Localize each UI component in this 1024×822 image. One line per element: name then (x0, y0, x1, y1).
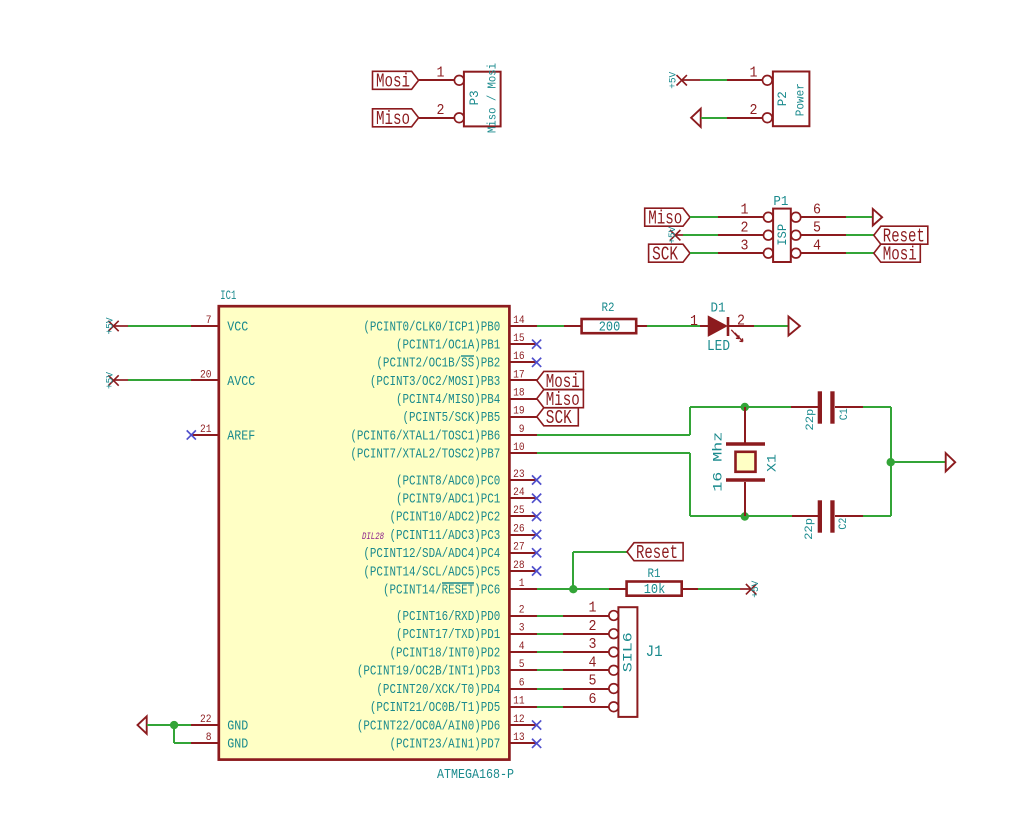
connector P2 pin 2 (763, 113, 773, 123)
svg-text:27: 27 (513, 542, 525, 554)
ground arrow (LED) (789, 317, 800, 336)
junction (569, 585, 577, 593)
IC pin 2 (PCINT16/RXD)PD0 (509, 615, 537, 617)
no-connect X (pin 16) (532, 358, 541, 367)
svg-text:(PCINT12/SDA/ADC4)PC4: (PCINT12/SDA/ADC4)PC4 (363, 546, 500, 562)
svg-text:ISP: ISP (776, 224, 790, 246)
no-connect X (AREF) (187, 430, 196, 439)
wire (700, 79, 727, 81)
power +5V (AVCC) (108, 375, 118, 385)
no-connect X (pin 12) (532, 720, 541, 729)
svg-text:6: 6 (519, 677, 525, 689)
connector P1 pin 2 (764, 230, 774, 240)
svg-text:10: 10 (513, 442, 525, 454)
svg-text:1: 1 (437, 64, 445, 81)
ground arrow (P2 pin 2) (691, 109, 701, 127)
svg-text:4: 4 (813, 237, 821, 254)
label Reset (P1 pin 5) (874, 226, 928, 244)
wire (537, 452, 690, 454)
no-connect X (pin 28) (532, 566, 541, 575)
IC pin 4 (PCINT18/INT0)PD2 (509, 651, 537, 653)
svg-text:IC1: IC1 (220, 288, 236, 303)
svg-text:+5V: +5V (751, 581, 762, 598)
IC pin 14 (PCINT0/CLK0/ICP1)PB0 (509, 325, 537, 327)
svg-text:Power: Power (793, 83, 807, 116)
wire (537, 434, 690, 436)
connector P1 pin 1 (764, 212, 774, 222)
wire (690, 216, 718, 218)
svg-text:P1: P1 (773, 194, 788, 210)
svg-text:VCC: VCC (227, 319, 248, 335)
IC pin 21 AREF (191, 434, 219, 436)
IC pin 26 (PCINT11/ADC3)PC3 (509, 534, 537, 536)
svg-text:C2: C2 (838, 518, 850, 530)
svg-text:4: 4 (519, 641, 525, 653)
svg-text:17: 17 (513, 369, 525, 381)
wire (128, 379, 191, 381)
connector P2 body (773, 72, 810, 127)
label Mosi (P3 pin 1) (373, 71, 419, 89)
svg-text:19: 19 (513, 406, 525, 418)
svg-text:(PCINT1/OC1A)PB1: (PCINT1/OC1A)PB1 (396, 337, 500, 353)
connector P3 body (464, 72, 501, 127)
svg-text:1: 1 (741, 201, 749, 218)
wire (891, 461, 946, 463)
connector P1 pin 3 (764, 248, 774, 258)
svg-text:2: 2 (750, 102, 758, 119)
capacitor C1 (791, 406, 818, 408)
svg-text:2: 2 (589, 618, 597, 635)
svg-text:2: 2 (741, 219, 749, 236)
no-connect X (pin 26) (532, 530, 541, 539)
wire (537, 669, 563, 671)
IC pin 22 GND (191, 724, 219, 726)
svg-text:(PCINT0/CLK0/ICP1)PB0: (PCINT0/CLK0/ICP1)PB0 (363, 319, 500, 335)
connector J1 pin 5 (609, 684, 619, 694)
connector P2 pin 1 (763, 76, 773, 86)
connector J1 pin 1 (609, 611, 619, 621)
connector J1 pin 3 (609, 647, 619, 657)
IC pin 5 (PCINT19/OC2B/INT1)PD3 (509, 669, 537, 671)
wire (647, 325, 700, 327)
svg-text:GND: GND (227, 737, 248, 753)
svg-text:SCK: SCK (546, 407, 572, 429)
svg-text:Miso: Miso (376, 108, 410, 130)
svg-text:(PCINT2/OC1B/SS)PB2: (PCINT2/OC1B/SS)PB2 (376, 356, 500, 372)
wire (537, 651, 563, 653)
svg-text:200: 200 (599, 321, 621, 336)
svg-text:P2: P2 (775, 91, 790, 106)
label Reset (R1) (627, 543, 683, 561)
svg-text:5: 5 (589, 673, 597, 690)
wire (537, 325, 564, 327)
wire (846, 252, 874, 254)
svg-text:(PCINT17/TXD)PD1: (PCINT17/TXD)PD1 (396, 627, 500, 643)
svg-text:2: 2 (519, 604, 525, 616)
wire (690, 252, 718, 254)
svg-text:25: 25 (513, 505, 525, 517)
IC pin 19 (PCINT5/SCK)PB5 (509, 416, 537, 418)
svg-text:(PCINT6/XTAL1/TOSC1)PB6: (PCINT6/XTAL1/TOSC1)PB6 (350, 428, 500, 444)
wire (128, 325, 191, 327)
resistor R1 (609, 588, 627, 590)
label Mosi (pin 17) (537, 371, 584, 389)
svg-text:3: 3 (741, 237, 749, 254)
power +5V (P2 pin 1) (677, 75, 687, 85)
IC pin 9 (PCINT6/XTAL1/TOSC1)PB6 (509, 434, 537, 436)
crystal X1 (744, 407, 746, 443)
ground arrow (crystal) (946, 453, 956, 471)
overline SS (pin 16) (461, 355, 474, 357)
wire (701, 117, 727, 119)
svg-text:14: 14 (513, 315, 525, 327)
wire (173, 725, 175, 743)
svg-text:GND: GND (227, 718, 248, 734)
svg-text:(PCINT14/SCL/ADC5)PC5: (PCINT14/SCL/ADC5)PC5 (363, 564, 500, 580)
IC pin 17 (PCINT3/OC2/MOSI)PB3 (509, 379, 537, 381)
svg-text:10k: 10k (644, 583, 666, 598)
IC pin 7 VCC (191, 325, 219, 327)
svg-text:(PCINT10/ADC2)PC2: (PCINT10/ADC2)PC2 (389, 510, 500, 526)
svg-text:(PCINT8/ADC0)PC0: (PCINT8/ADC0)PC0 (396, 473, 500, 489)
svg-text:(PCINT14/RESET)PC6: (PCINT14/RESET)PC6 (383, 583, 500, 599)
overline RESET (pin 1) (442, 582, 474, 584)
svg-text:24: 24 (513, 487, 525, 499)
wire (537, 588, 609, 590)
svg-text:22p: 22p (805, 409, 817, 431)
IC pin 20 AVCC (191, 379, 219, 381)
svg-text:R1: R1 (648, 567, 661, 581)
svg-text:3: 3 (519, 623, 525, 635)
no-connect X (pin 25) (532, 512, 541, 521)
IC pin 13 (PCINT23/AIN1)PD7 (509, 742, 537, 744)
svg-text:7: 7 (206, 315, 212, 327)
power +5V (VCC) (108, 321, 118, 331)
svg-text:DIL28: DIL28 (362, 531, 384, 543)
IC pin 16 (PCINT2/OC1B/SS)PB2 (509, 361, 537, 363)
ground arrow (GND) (138, 716, 147, 733)
svg-text:(PCINT20/XCK/T0)PD4: (PCINT20/XCK/T0)PD4 (376, 682, 500, 698)
ground arrow (P1 pin 6) (873, 209, 882, 226)
svg-text:6: 6 (813, 201, 821, 218)
svg-text:3: 3 (589, 636, 597, 653)
svg-text:(PCINT9/ADC1)PC1: (PCINT9/ADC1)PC1 (396, 492, 500, 508)
junction (741, 403, 749, 411)
svg-text:16: 16 (513, 351, 525, 363)
wire (537, 633, 563, 635)
IC pin 28 (PCINT14/SCL/ADC5)PC5 (509, 570, 537, 572)
svg-text:+5V: +5V (669, 72, 680, 89)
label Miso (P3 pin 2) (373, 109, 419, 127)
power +5V (P1 pin 2) (670, 230, 680, 240)
svg-text:Miso / Mosi: Miso / Mosi (486, 63, 500, 133)
svg-text:SCK: SCK (652, 244, 678, 266)
svg-text:16 Mhz: 16 Mhz (711, 432, 726, 492)
svg-text:11: 11 (513, 696, 525, 708)
wire (689, 407, 691, 435)
connector P3 pin 2 (454, 113, 464, 123)
svg-text:9: 9 (519, 424, 525, 436)
connector P1 pin 6 (791, 212, 801, 222)
IC pin 3 (PCINT17/TXD)PD1 (509, 633, 537, 635)
wire (572, 552, 574, 589)
svg-text:18: 18 (513, 387, 525, 399)
svg-text:1: 1 (519, 578, 525, 590)
svg-text:(PCINT19/OC2B/INT1)PD3: (PCINT19/OC2B/INT1)PD3 (357, 664, 500, 680)
wire (846, 216, 873, 218)
wire (863, 515, 891, 517)
svg-text:X1: X1 (765, 454, 780, 472)
junction (170, 721, 178, 729)
label Miso (P1 pin 1) (645, 208, 690, 226)
svg-text:Reset: Reset (636, 542, 678, 564)
svg-text:R2: R2 (602, 301, 615, 315)
wire (754, 325, 788, 327)
svg-text:1: 1 (589, 600, 597, 617)
IC pin 12 (PCINT22/OC0A/AIN0)PD6 (509, 724, 537, 726)
wire (573, 551, 627, 553)
label SCK (P1 pin 3) (649, 244, 690, 262)
IC pin 24 (PCINT9/ADC1)PC1 (509, 497, 537, 499)
no-connect X (pin 24) (532, 494, 541, 503)
svg-text:J1: J1 (646, 643, 663, 661)
label Miso (pin 18) (537, 390, 584, 408)
IC pin 10 (PCINT7/XTAL2/TOSC2)PB7 (509, 452, 537, 454)
svg-text:AREF: AREF (227, 428, 255, 444)
wire (174, 724, 191, 726)
wire (537, 615, 563, 617)
label Mosi (P1 pin 4) (874, 244, 921, 262)
resistor R2 (564, 325, 582, 327)
svg-text:Mosi: Mosi (376, 71, 410, 93)
IC pin 6 (PCINT20/XCK/T0)PD4 (509, 688, 537, 690)
LED D1 (700, 325, 708, 327)
wire (745, 515, 792, 517)
IC pin 23 (PCINT8/ADC0)PC0 (509, 479, 537, 481)
svg-text:LED: LED (707, 338, 730, 355)
IC pin 1 (PCINT14/RESET)PC6 (509, 588, 537, 590)
connector P3 pin 1 (454, 76, 464, 86)
no-connect X (pin 13) (532, 739, 541, 748)
svg-text:(PCINT5/SCK)PB5: (PCINT5/SCK)PB5 (403, 410, 501, 426)
svg-text:15: 15 (513, 333, 525, 345)
capacitor C2 (792, 515, 818, 517)
svg-text:(PCINT11/ADC3)PC3: (PCINT11/ADC3)PC3 (389, 528, 500, 544)
no-connect X (pin 27) (532, 548, 541, 557)
svg-text:(PCINT4/MISO)PB4: (PCINT4/MISO)PB4 (396, 392, 500, 408)
wire (537, 688, 563, 690)
svg-text:(PCINT7/XTAL2/TOSC2)PB7: (PCINT7/XTAL2/TOSC2)PB7 (350, 446, 500, 462)
connector J1 pin 2 (609, 629, 619, 639)
svg-text:ATMEGA168-P: ATMEGA168-P (437, 767, 514, 783)
wire (846, 234, 874, 236)
wire (683, 234, 718, 236)
IC pin 8 GND (191, 742, 219, 744)
svg-text:(PCINT21/OC0B/T1)PD5: (PCINT21/OC0B/T1)PD5 (370, 700, 500, 716)
svg-text:22: 22 (200, 714, 212, 726)
wire (690, 406, 745, 408)
junction (741, 512, 749, 520)
IC U1 ATMEGA168-P body (219, 306, 510, 759)
svg-text:23: 23 (513, 469, 525, 481)
wire (174, 742, 191, 744)
svg-text:22p: 22p (804, 518, 816, 540)
wire (745, 406, 791, 408)
IC pin 15 (PCINT1/OC1A)PB1 (509, 343, 537, 345)
svg-text:20: 20 (200, 369, 212, 381)
wire (690, 515, 745, 517)
wire (537, 706, 563, 708)
svg-text:(PCINT22/OC0A/AIN0)PD6: (PCINT22/OC0A/AIN0)PD6 (357, 718, 500, 734)
IC pin 11 (PCINT21/OC0B/T1)PD5 (509, 706, 537, 708)
svg-text:13: 13 (513, 732, 525, 744)
svg-text:21: 21 (200, 424, 212, 436)
no-connect X (pin 23) (532, 475, 541, 484)
svg-text:P3: P3 (467, 90, 482, 105)
svg-text:(PCINT23/AIN1)PD7: (PCINT23/AIN1)PD7 (389, 737, 500, 753)
IC pin 27 (PCINT12/SDA/ADC4)PC4 (509, 552, 537, 554)
IC pin 25 (PCINT10/ADC2)PC2 (509, 515, 537, 517)
wire (863, 406, 891, 408)
svg-text:Mosi: Mosi (883, 244, 917, 266)
svg-text:4: 4 (589, 654, 597, 671)
junction (887, 458, 895, 466)
svg-text:(PCINT16/RXD)PD0: (PCINT16/RXD)PD0 (396, 609, 500, 625)
svg-text:8: 8 (206, 732, 212, 744)
svg-text:5: 5 (519, 659, 525, 671)
connector J1 pin 4 (609, 665, 619, 675)
svg-text:1: 1 (690, 313, 698, 330)
no-connect X (pin 15) (532, 340, 541, 349)
wire (698, 588, 740, 590)
svg-text:C1: C1 (839, 408, 851, 420)
svg-text:(PCINT18/INT0)PD2: (PCINT18/INT0)PD2 (389, 645, 500, 661)
connector J1 body (618, 607, 637, 717)
svg-text:D1: D1 (711, 301, 726, 317)
svg-text:12: 12 (513, 714, 525, 726)
svg-text:2: 2 (437, 102, 445, 119)
svg-text:1: 1 (750, 64, 758, 81)
svg-text:AVCC: AVCC (227, 374, 255, 390)
label SCK (pin 19) (537, 408, 579, 426)
power +5V (R1) (740, 588, 751, 590)
connector P1 body (773, 209, 791, 262)
svg-text:26: 26 (513, 523, 525, 535)
wire (147, 724, 174, 726)
svg-text:(PCINT3/OC2/MOSI)PB3: (PCINT3/OC2/MOSI)PB3 (370, 374, 500, 390)
svg-text:28: 28 (513, 560, 525, 572)
svg-text:SIL6: SIL6 (621, 632, 636, 672)
svg-text:5: 5 (813, 219, 821, 236)
connector J1 pin 6 (609, 702, 619, 712)
svg-text:6: 6 (589, 691, 597, 708)
wire (689, 453, 691, 516)
connector P1 pin 4 (791, 248, 801, 258)
connector P1 pin 5 (791, 230, 801, 240)
IC pin 18 (PCINT4/MISO)PB4 (509, 398, 537, 400)
svg-text:Miso: Miso (648, 208, 682, 230)
wire (890, 407, 892, 516)
